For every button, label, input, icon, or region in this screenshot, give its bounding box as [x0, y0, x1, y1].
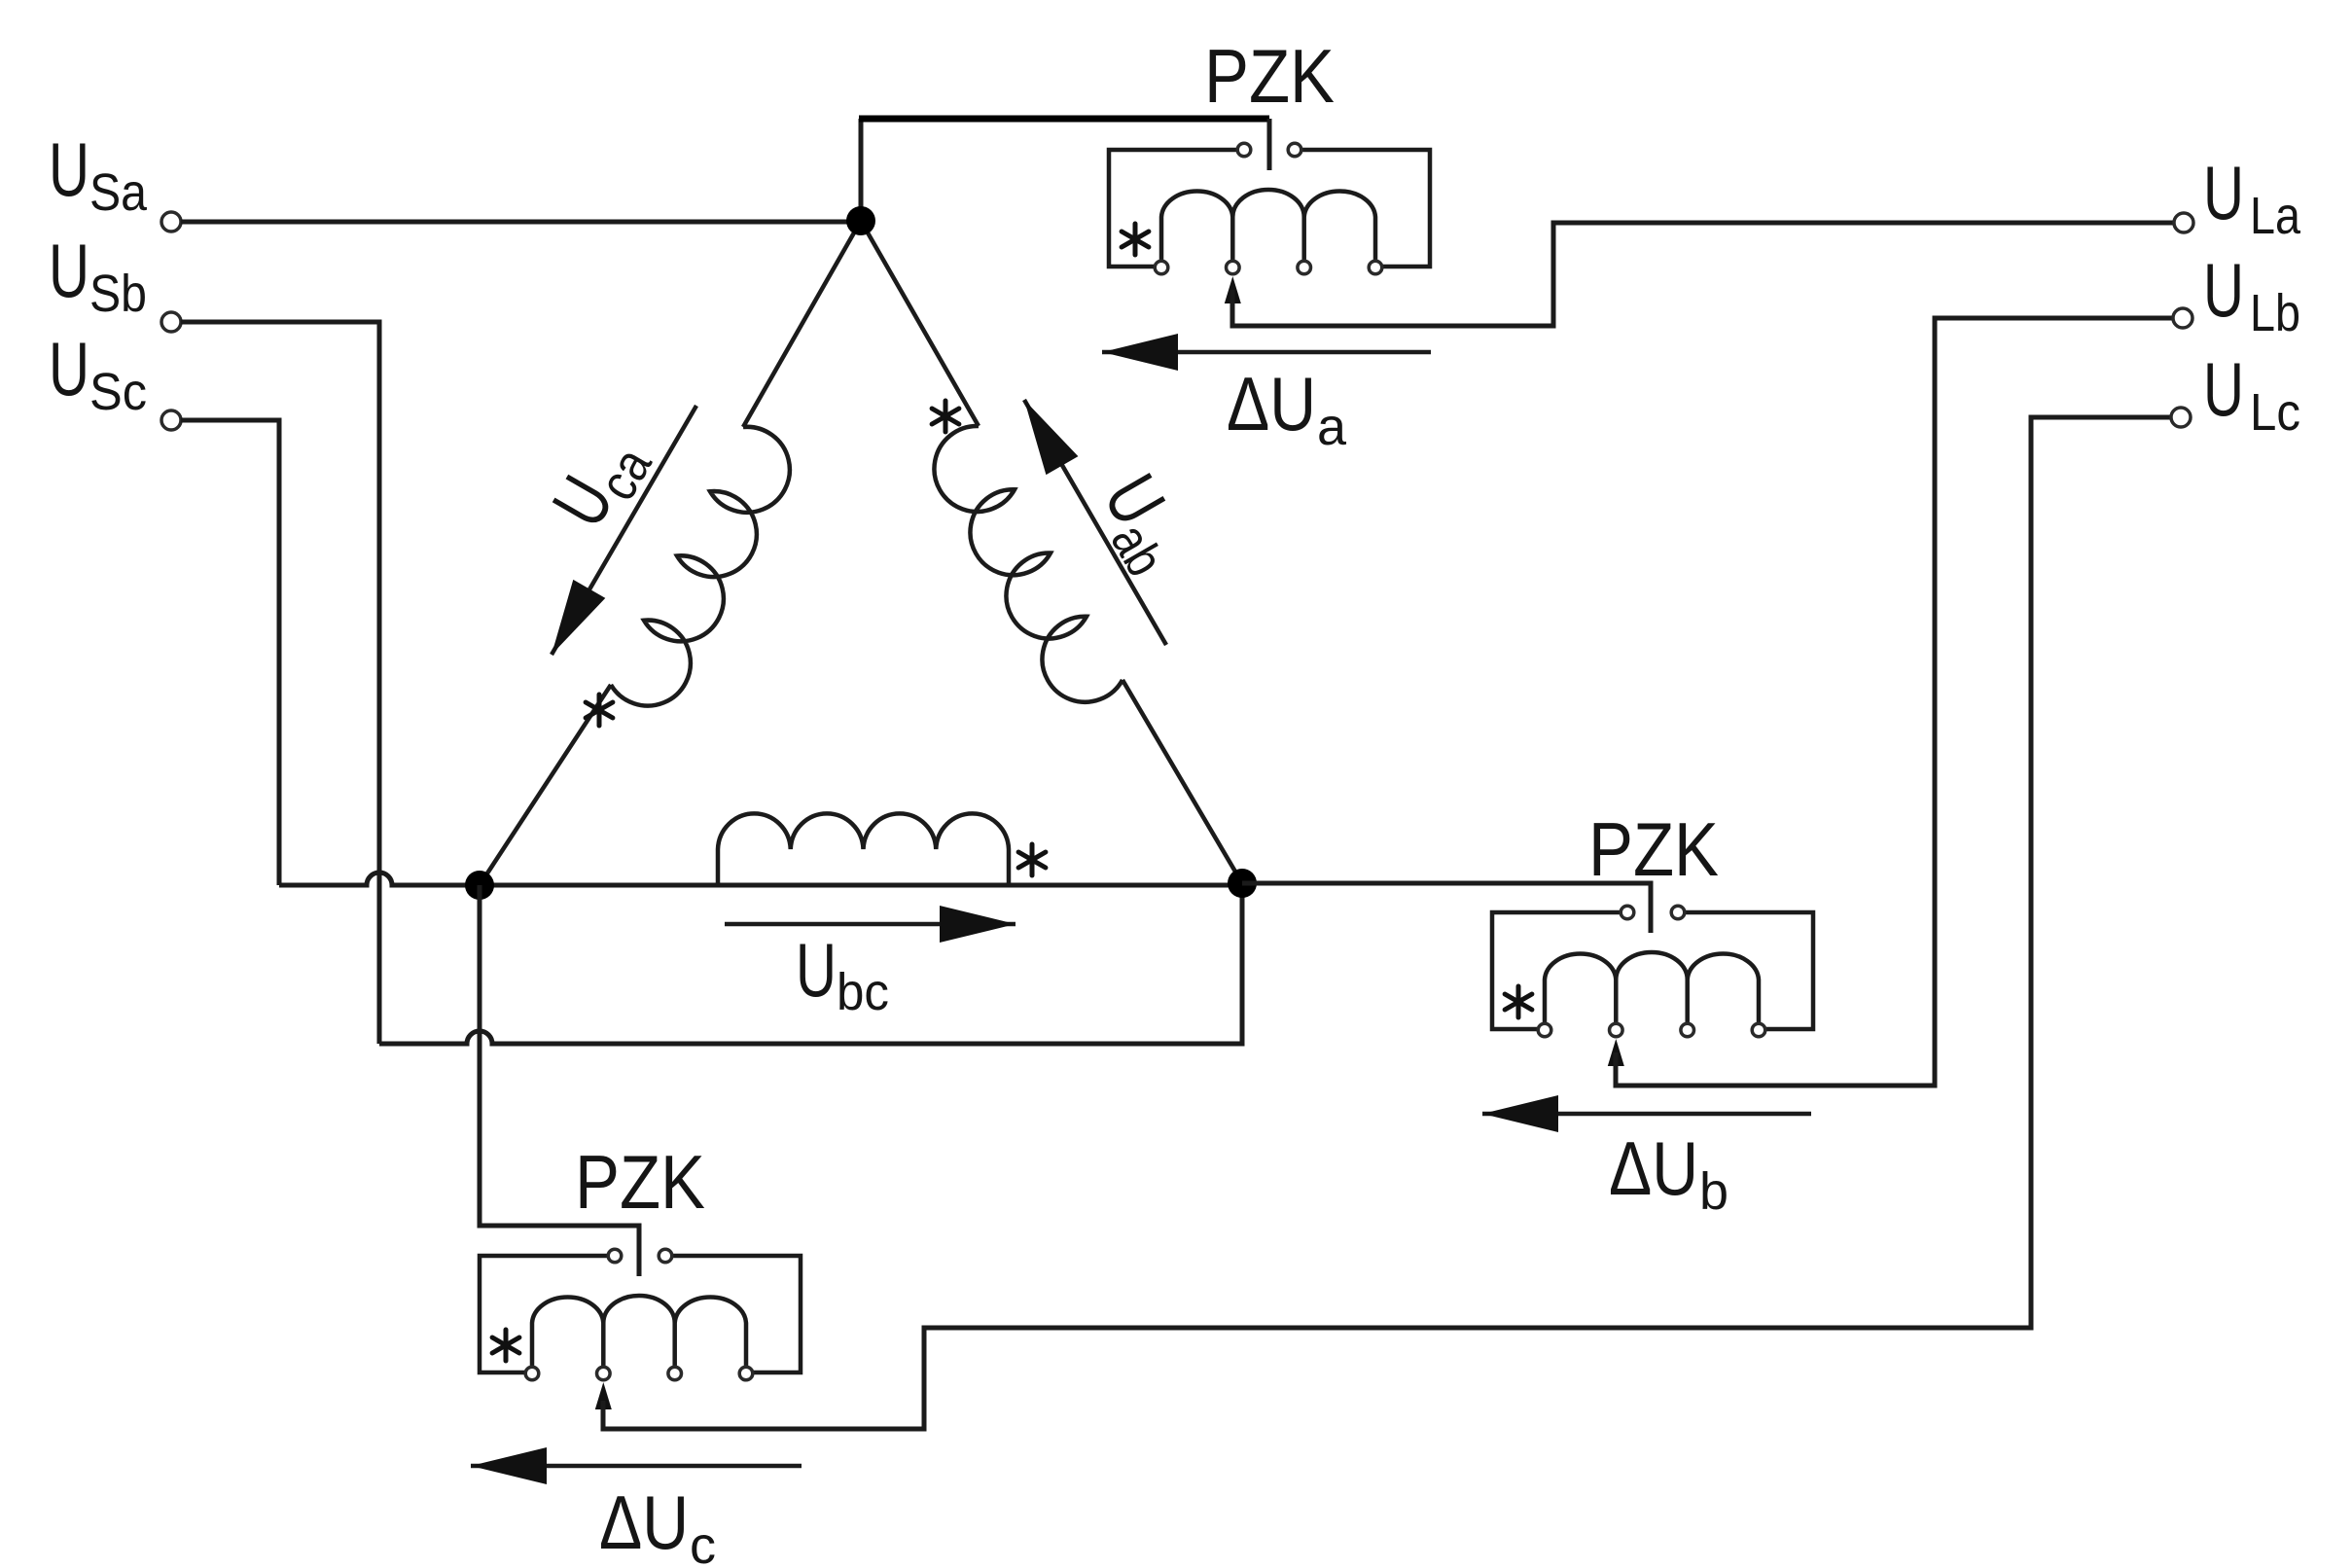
svg-text:U: U	[2203, 150, 2244, 235]
svg-text:PZK: PZK	[575, 1139, 705, 1225]
tap changer PZK c	[480, 1249, 801, 1409]
PZK c frame right loop	[672, 1256, 801, 1372]
PZK b polarity mark	[1505, 986, 1532, 1017]
PZK b tap terminal 3	[1681, 1023, 1694, 1037]
winding Uca upper lead	[743, 221, 861, 427]
PZK a frame right loop	[1301, 150, 1430, 267]
terminal ULc	[2171, 408, 2191, 427]
PZK a switch contact right	[1288, 143, 1301, 157]
PZK c tap output arrow	[595, 1382, 612, 1409]
terminal USa	[161, 212, 181, 232]
PZK c switch contact right	[659, 1249, 672, 1263]
wire node a riser	[859, 119, 864, 224]
polarity mark winding ab	[932, 401, 959, 432]
svg-text:Sb: Sb	[89, 265, 147, 323]
label dUb	[1609, 1125, 1728, 1221]
PZK a switch contact left	[1237, 143, 1251, 157]
svg-text:ΔU: ΔU	[1227, 361, 1316, 446]
label ULc	[2203, 346, 2300, 442]
PZK c frame left loop	[480, 1256, 608, 1372]
svg-text:PZK: PZK	[1204, 33, 1335, 119]
PZK b tap output arrow	[1608, 1039, 1624, 1066]
PZK a frame left loop	[1109, 150, 1237, 267]
svg-text:ΔU: ΔU	[599, 1479, 689, 1565]
PZK b winding	[1545, 952, 1759, 1023]
polarity mark winding bc	[1018, 844, 1046, 875]
arrow dUa	[1102, 350, 1431, 355]
terminal ULa	[2174, 213, 2193, 232]
arrow Ubc	[725, 922, 1016, 927]
arrow Uab	[1024, 400, 1166, 645]
svg-text:Sa: Sa	[89, 163, 148, 222]
PZK a polarity mark	[1122, 224, 1149, 255]
wire PZK a tap to ULa	[1232, 223, 2174, 326]
svg-text:ΔU: ΔU	[1609, 1125, 1698, 1211]
svg-text:Lc: Lc	[2250, 383, 2300, 442]
node b junction	[465, 871, 494, 900]
PZK b frame right loop	[1685, 912, 1813, 1029]
label ULa	[2203, 150, 2301, 245]
svg-text:U: U	[49, 228, 89, 313]
wire node b to PZK c	[480, 885, 639, 1276]
wire node c to PZK b	[1242, 883, 1651, 933]
PZK b tap terminal 1	[1538, 1023, 1551, 1037]
svg-text:c: c	[690, 1516, 716, 1568]
terminal USc	[161, 410, 181, 430]
PZK c tap terminal 2	[597, 1367, 611, 1380]
label ULb	[2203, 247, 2300, 342]
node c junction	[1228, 869, 1257, 898]
wire USb horizontal run with hop over node-c drop	[379, 883, 1242, 1044]
arrow dUb	[1482, 1112, 1811, 1117]
wire bottom side node b to node c	[480, 883, 1242, 888]
PZK b switch contact right	[1671, 906, 1685, 919]
PZK c tap terminal 3	[668, 1367, 682, 1380]
svg-text:La: La	[2250, 187, 2301, 245]
label USc	[49, 326, 147, 421]
label USb	[49, 228, 147, 323]
winding Uab upper lead	[861, 221, 979, 426]
svg-text:b: b	[1699, 1162, 1728, 1221]
PZK a tap terminal 1	[1155, 261, 1168, 274]
PZK a winding	[1161, 190, 1375, 261]
svg-text:a: a	[1317, 398, 1347, 456]
PZK b tap terminal 2	[1610, 1023, 1623, 1037]
PZK b tap terminal 4	[1752, 1023, 1765, 1037]
svg-text:PZK: PZK	[1588, 806, 1719, 892]
label Uca (rotated)	[536, 419, 663, 545]
winding Uca coil	[611, 427, 790, 706]
label dUc	[599, 1479, 716, 1568]
svg-text:bc: bc	[837, 963, 889, 1021]
wire PZK a switch drop	[1267, 119, 1272, 170]
label Ubc	[796, 927, 889, 1021]
tap changer PZK a	[1109, 143, 1430, 303]
wire USc to node c with hop over USb drop	[181, 420, 480, 885]
label dUa	[1227, 361, 1347, 456]
PZK c polarity mark	[492, 1330, 519, 1361]
svg-text:U: U	[49, 326, 89, 411]
PZK b frame left loop	[1492, 912, 1621, 1029]
svg-text:U: U	[2203, 247, 2244, 333]
svg-text:U: U	[796, 927, 837, 1013]
winding Uab coil	[934, 426, 1123, 702]
node a junction	[846, 206, 875, 235]
arrow Uca	[552, 406, 696, 655]
svg-text:U: U	[2203, 346, 2244, 432]
PZK a tap terminal 4	[1369, 261, 1382, 274]
label USa	[49, 126, 148, 222]
wire USa to node a	[181, 220, 849, 225]
wire PZK c tap to ULc	[603, 417, 2171, 1429]
svg-text:U: U	[49, 126, 89, 212]
wire top feed to PZK a	[859, 116, 1269, 123]
svg-text:Sc: Sc	[89, 363, 147, 421]
winding Uab lower lead	[1123, 680, 1242, 883]
PZK c switch contact left	[608, 1249, 622, 1263]
terminal ULb	[2173, 308, 2192, 328]
label Uab (rotated)	[1080, 461, 1207, 587]
wire USb to node b	[181, 322, 379, 1044]
PZK a tap output arrow	[1225, 276, 1241, 303]
arrow dUc	[471, 1464, 802, 1469]
PZK c tap terminal 4	[739, 1367, 753, 1380]
PZK a tap terminal 2	[1227, 261, 1240, 274]
polarity mark winding ca	[586, 695, 613, 726]
winding Uca lower lead	[480, 685, 611, 885]
PZK a tap terminal 3	[1298, 261, 1311, 274]
PZK c winding	[532, 1296, 746, 1367]
winding Ubc coil	[718, 813, 1009, 885]
svg-text:Lb: Lb	[2250, 284, 2300, 342]
wire PZK b tap to ULb	[1616, 318, 2173, 1086]
tap changer PZK b	[1492, 906, 1813, 1066]
PZK c tap terminal 1	[525, 1367, 539, 1380]
terminal USb	[161, 312, 181, 332]
PZK b switch contact left	[1621, 906, 1634, 919]
